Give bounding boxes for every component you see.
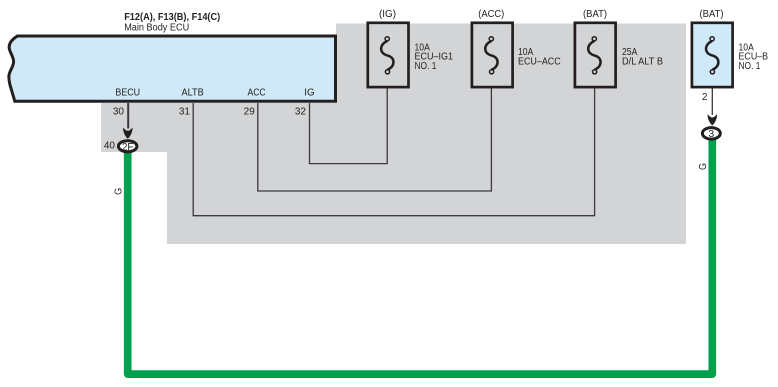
svg-text:Main Body ECU: Main Body ECU xyxy=(124,23,189,34)
arrow into connector 2F xyxy=(123,128,133,139)
svg-text:NO. 1: NO. 1 xyxy=(739,61,761,72)
svg-text:(IG): (IG) xyxy=(379,9,396,20)
connector 2F oval xyxy=(118,141,136,152)
svg-text:40: 40 xyxy=(104,141,116,152)
svg-text:(BAT): (BAT) xyxy=(583,9,607,20)
label 25A D/L ALT B xyxy=(622,47,663,67)
svg-text:29: 29 xyxy=(244,107,256,118)
label 10A ECU-IG1 NO. 1 xyxy=(415,43,454,73)
arrow into connector 3 xyxy=(708,114,718,125)
wire ALTB pin 31 to fuse D/L ALT B xyxy=(193,74,594,216)
wire ACC pin 29 to fuse ECU-ACC xyxy=(258,74,492,192)
svg-text:ACC: ACC xyxy=(248,88,266,99)
svg-text:ALTB: ALTB xyxy=(182,88,204,99)
svg-text:ECU–ACC: ECU–ACC xyxy=(518,56,561,67)
svg-text:32: 32 xyxy=(295,107,307,118)
junction block gray shading xyxy=(101,24,686,245)
fuse ECU-ACC box xyxy=(472,23,513,87)
svg-text:(ACC): (ACC) xyxy=(478,9,504,20)
svg-text:F12(A), F13(B), F14(C): F12(A), F13(B), F14(C) xyxy=(124,12,220,23)
svg-text:30: 30 xyxy=(113,107,125,118)
svg-text:(BAT): (BAT) xyxy=(700,9,724,20)
svg-text:D/L ALT B: D/L ALT B xyxy=(622,56,663,67)
fuse ECU-IG1 box xyxy=(368,23,409,87)
svg-text:IG: IG xyxy=(304,88,315,99)
label 10A ECU-ACC xyxy=(518,47,561,67)
label 10A ECU-B NO. 1 xyxy=(739,43,769,73)
fuse D/L ALT B box xyxy=(575,23,616,87)
svg-text:3: 3 xyxy=(708,128,714,140)
ECU connector box F12/F13/F14 xyxy=(9,36,336,101)
svg-text:G: G xyxy=(112,188,124,195)
wire BECU pin 30 to connector 2F xyxy=(127,103,129,129)
connector 3 oval xyxy=(702,128,720,140)
svg-text:NO. 1: NO. 1 xyxy=(415,61,437,72)
wire IG pin 32 to fuse ECU-IG1 xyxy=(310,74,388,164)
svg-text:G: G xyxy=(697,163,709,170)
svg-text:BECU: BECU xyxy=(115,88,140,99)
svg-text:31: 31 xyxy=(179,107,191,118)
fuse ECU-B box xyxy=(692,23,733,87)
svg-text:2: 2 xyxy=(702,92,708,103)
svg-text:2F: 2F xyxy=(122,141,134,153)
wire G green from connector 2F to connector 3 xyxy=(128,139,713,374)
wire fuse ECU-B pin 2 to connector 3 xyxy=(711,74,713,116)
